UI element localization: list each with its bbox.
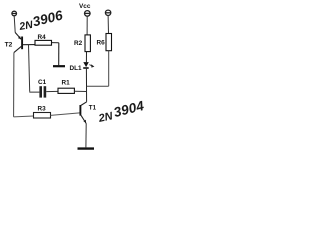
wire terminal to R6 xyxy=(107,16,109,34)
svg-text:T2: T2 xyxy=(5,42,13,49)
svg-text:R3: R3 xyxy=(38,106,47,113)
svg-text:R6: R6 xyxy=(97,40,106,47)
svg-text:R1: R1 xyxy=(62,80,71,87)
wire R2 to DL1 xyxy=(85,52,87,63)
wire T2 collector down left rail xyxy=(13,53,15,117)
resistor R4 xyxy=(35,40,52,45)
wire DL1 down to T1 collector xyxy=(85,69,87,102)
wire T1 emitter down xyxy=(85,124,87,148)
wire Vcc to R2 xyxy=(86,16,88,35)
svg-text:DL1: DL1 xyxy=(70,65,83,72)
svg-text:R4: R4 xyxy=(38,34,47,41)
terminal Vcc xyxy=(85,11,91,17)
ground under R4 xyxy=(53,43,65,66)
transistor T2 (PNP 2N3906) xyxy=(14,33,35,53)
resistor R2 xyxy=(85,35,90,52)
svg-text:T1: T1 xyxy=(89,105,97,112)
resistor R3 xyxy=(34,113,51,119)
wire left rail to R3 xyxy=(14,115,34,118)
ground under T1 xyxy=(78,147,95,149)
capacitor C1 xyxy=(30,86,58,97)
svg-text:C1: C1 xyxy=(38,79,47,86)
wire R3 to T1 base xyxy=(51,113,80,116)
svg-text:Vcc: Vcc xyxy=(79,3,91,10)
wire R4 right xyxy=(52,42,59,44)
terminal J1 (input, top-left) xyxy=(12,11,17,16)
LED DL1 xyxy=(83,62,94,68)
terminal aux (top right) xyxy=(105,10,110,15)
wire R6 down to junction xyxy=(108,51,110,86)
transistor T1 (NPN 2N3904) xyxy=(80,102,86,124)
wire R1 to collector node xyxy=(74,90,86,92)
svg-text:R2: R2 xyxy=(74,40,83,47)
resistor R1 xyxy=(58,88,74,93)
wire J1 to T2 emitter xyxy=(14,16,15,33)
node: T2 base tee xyxy=(29,45,30,92)
resistor R6 xyxy=(106,34,112,51)
wire junction horizontal xyxy=(87,85,109,87)
